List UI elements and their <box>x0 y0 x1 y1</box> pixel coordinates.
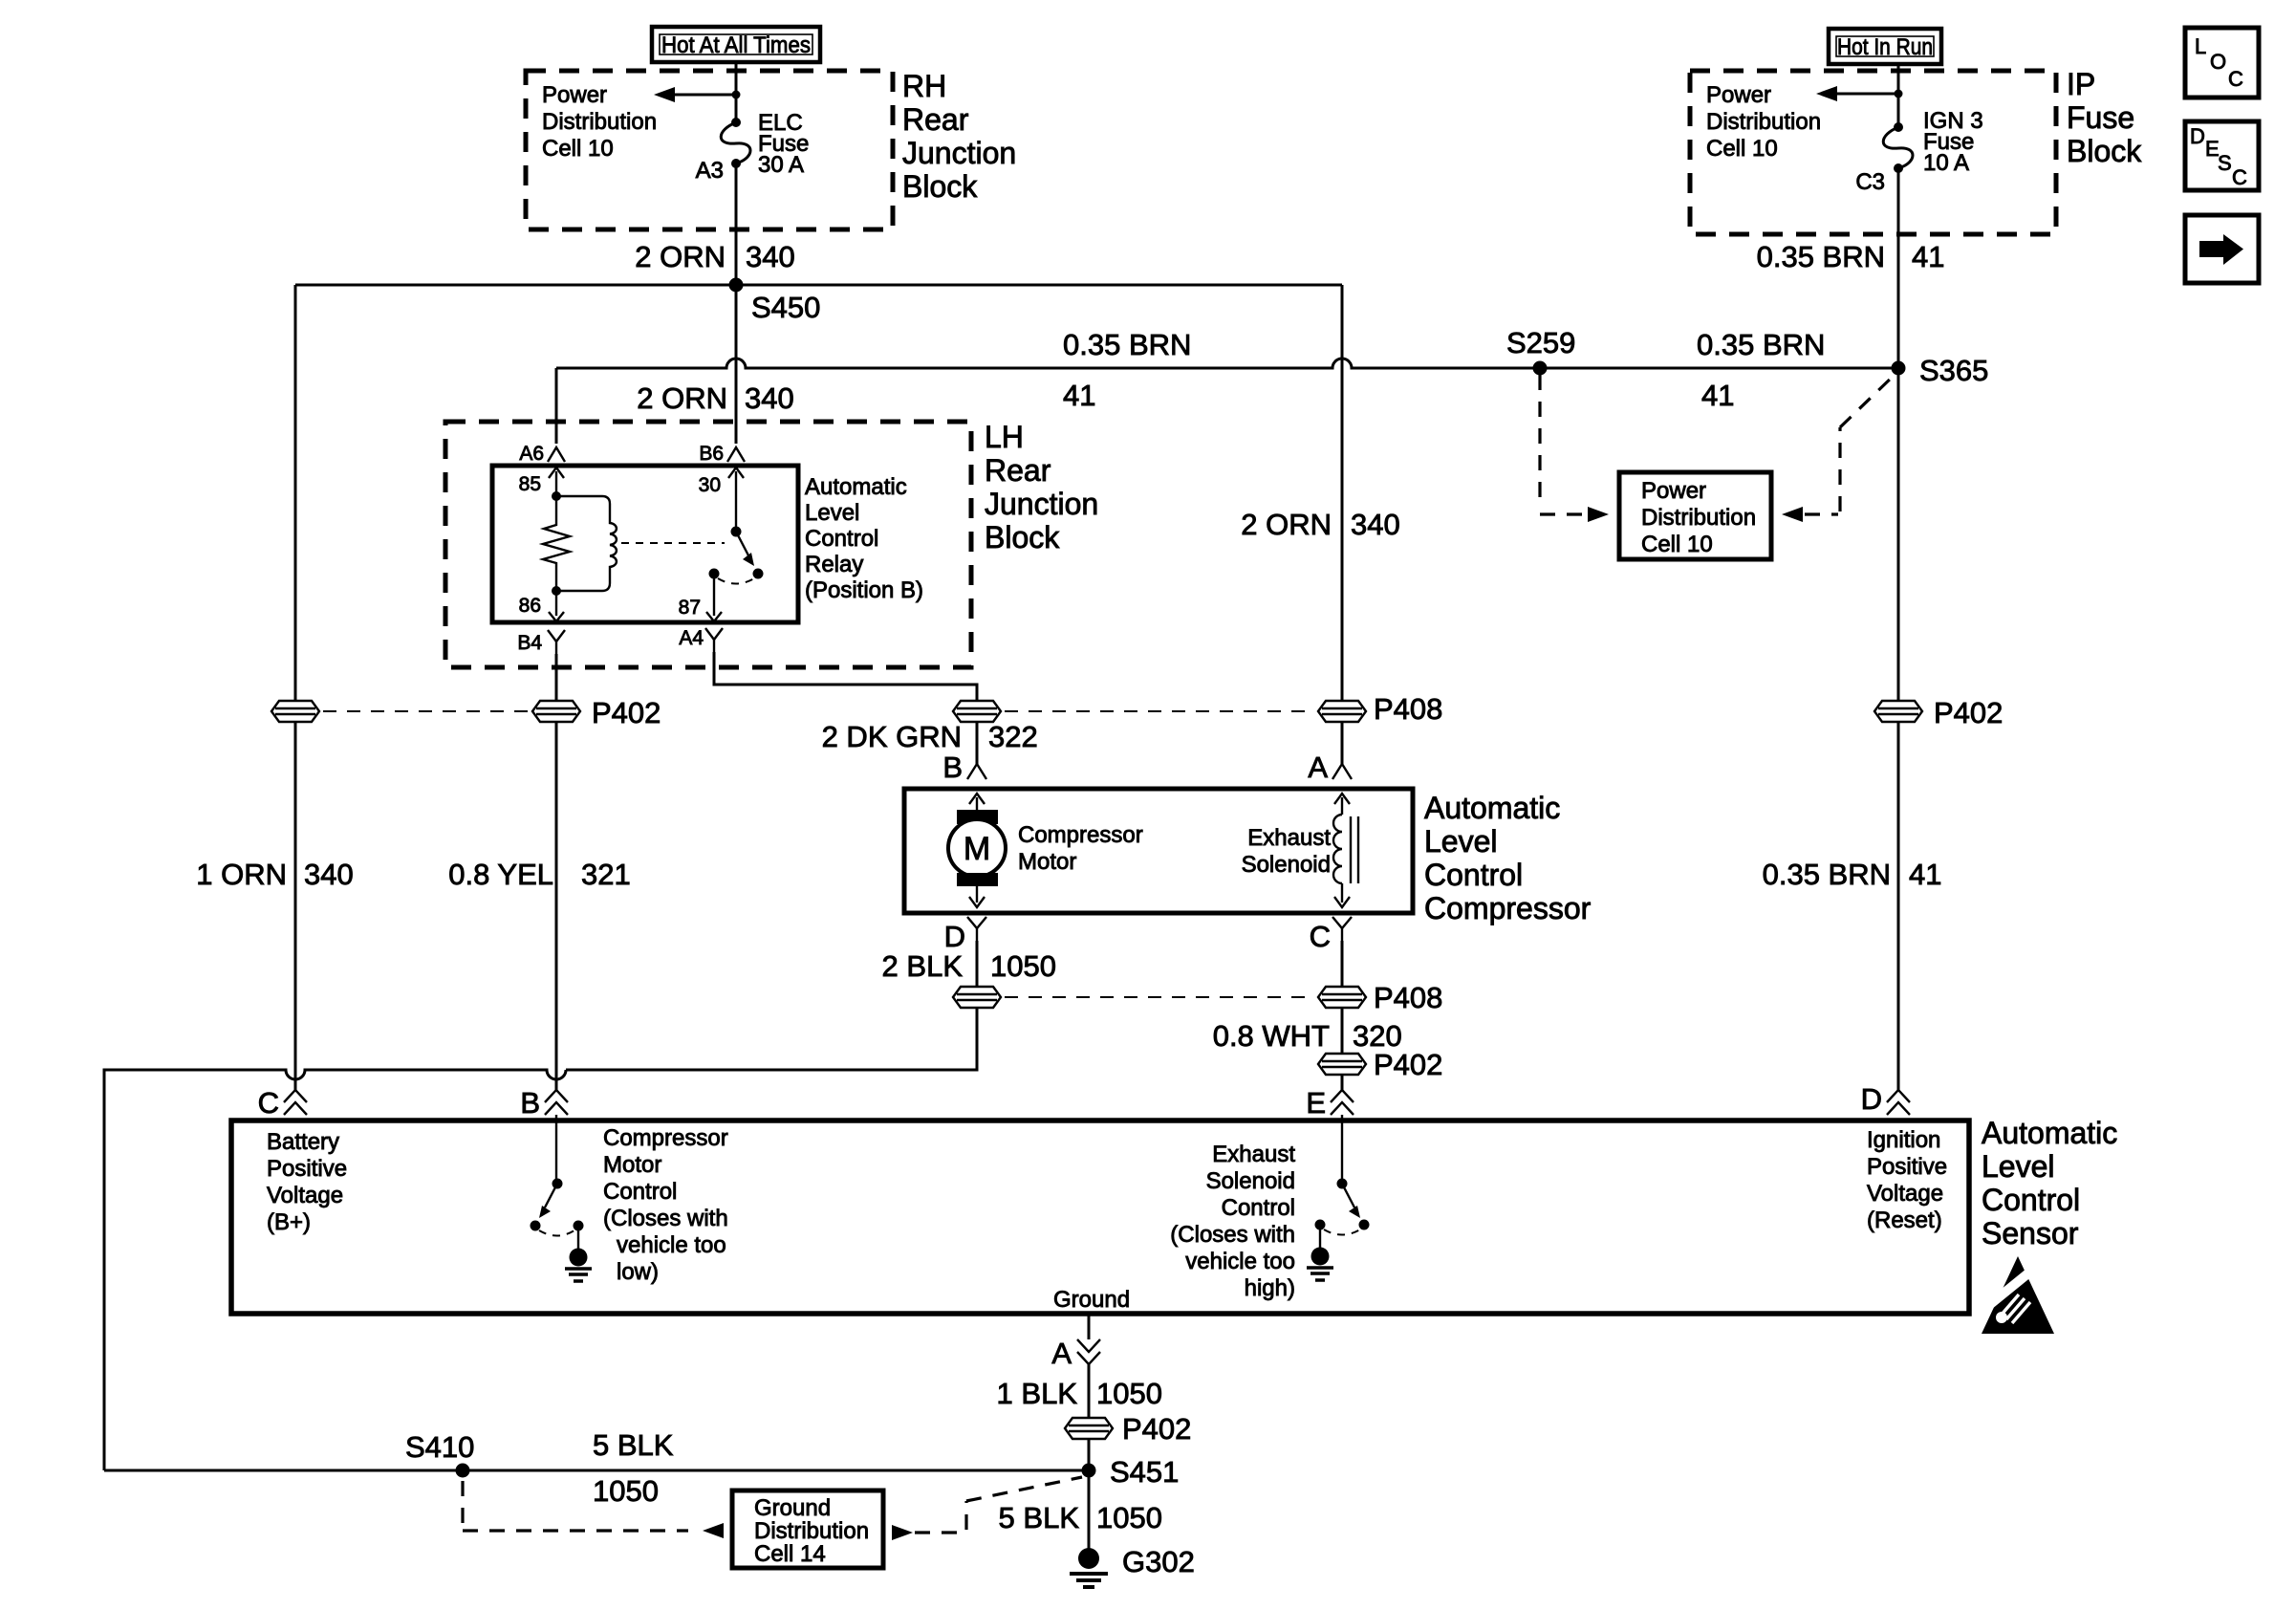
svg-text:Distribution: Distribution <box>754 1518 869 1544</box>
svg-text:41: 41 <box>1912 240 1944 273</box>
svg-text:Motor: Motor <box>603 1152 661 1178</box>
connector P402 cavity (IGN line) <box>1874 368 2003 729</box>
wire to S451 and G302 <box>1088 1439 1091 1549</box>
dashed link P408 lower <box>1005 996 1314 998</box>
ground G302 <box>1070 1545 1195 1587</box>
svg-text:5 BLK: 5 BLK <box>999 1501 1080 1534</box>
connector A (sensor ground) <box>1051 1337 1100 1370</box>
svg-text:vehicle too: vehicle too <box>1185 1249 1295 1274</box>
wire C between connectors <box>1341 1008 1344 1054</box>
wire: hot box down to fuse <box>735 62 738 122</box>
svg-text:Control: Control <box>603 1179 677 1205</box>
svg-text:Power: Power <box>1706 82 1771 108</box>
svg-text:C: C <box>1310 920 1331 953</box>
label Battery Positive Voltage (B+) <box>267 1129 347 1235</box>
svg-text:Ignition: Ignition <box>1867 1127 1940 1153</box>
svg-text:Power: Power <box>1641 478 1706 504</box>
svg-text:vehicle too: vehicle too <box>617 1232 726 1258</box>
svg-text:1 ORN: 1 ORN <box>196 858 287 891</box>
IP fuse block dashed box <box>1690 71 2056 234</box>
ground (motor control contact) <box>565 1226 592 1281</box>
svg-text:1050: 1050 <box>1096 1377 1162 1410</box>
wire: fuse to S450 <box>735 163 738 285</box>
connector P408 cavity (C wire) <box>1318 981 1442 1014</box>
svg-text:0.8 WHT: 0.8 WHT <box>1213 1019 1330 1053</box>
svg-text:5 BLK: 5 BLK <box>593 1428 674 1462</box>
wire S450 down to relay B6 <box>735 285 738 443</box>
node S450 <box>729 278 744 293</box>
label 2 BLK 1050 <box>882 949 1056 983</box>
node S259 <box>1533 361 1548 376</box>
svg-text:340: 340 <box>745 381 794 415</box>
wire D down <box>976 941 979 987</box>
relay switch <box>709 527 764 584</box>
dashed link P402 <box>323 710 529 712</box>
svg-text:Relay: Relay <box>805 552 863 577</box>
wire right drop A line top <box>1341 285 1344 700</box>
svg-text:321: 321 <box>581 858 631 891</box>
svg-text:2 ORN: 2 ORN <box>637 381 727 415</box>
label 2 ORN 340 (to relay) <box>637 381 793 415</box>
svg-text:P402: P402 <box>1934 696 2003 729</box>
dashed link P408 <box>1005 710 1314 712</box>
node pin85 junction <box>552 491 561 501</box>
svg-text:B: B <box>942 751 963 784</box>
connector P402 cavity (C line) <box>271 701 319 722</box>
label Exhaust Solenoid <box>1242 825 1332 878</box>
connector B (compressor) <box>942 751 986 784</box>
wire rail2 corner down to A6 <box>555 368 558 444</box>
svg-text:P402: P402 <box>592 696 661 729</box>
dashed ref from S365 <box>1805 374 1895 514</box>
svg-text:S: S <box>2218 151 2232 175</box>
svg-text:Control: Control <box>1424 858 1523 892</box>
svg-text:0.35 BRN: 0.35 BRN <box>1063 328 1191 361</box>
label Automatic Level Control Compressor <box>1424 791 1592 925</box>
arrow to power distribution (IP) <box>1816 86 1898 101</box>
svg-text:Power: Power <box>542 82 607 108</box>
pin 86 <box>519 591 564 621</box>
node S410 <box>456 1464 470 1478</box>
label Exhaust Solenoid Control (Closes with vehicle too high) <box>1170 1142 1295 1301</box>
DESC box <box>2185 121 2259 190</box>
svg-text:Control: Control <box>1222 1195 1295 1221</box>
wire B4 down <box>555 654 558 700</box>
dashed ref from ground box to S451 <box>915 1477 1082 1533</box>
connector P408 cavity (D wire) <box>953 987 1001 1008</box>
connector D (sensor) <box>1861 1082 1910 1116</box>
node pin86 junction <box>552 586 561 596</box>
wire B line lower <box>555 723 558 1092</box>
svg-text:S259: S259 <box>1506 326 1575 359</box>
svg-text:Motor: Motor <box>1018 849 1076 875</box>
svg-text:low): low) <box>617 1259 659 1285</box>
svg-text:Compressor: Compressor <box>603 1125 728 1151</box>
svg-text:Exhaust: Exhaust <box>1247 825 1331 851</box>
label IP Fuse Block <box>2067 67 2142 168</box>
label Power Distribution Cell 10 (RH) <box>542 82 657 162</box>
svg-text:85: 85 <box>519 473 541 495</box>
svg-text:RH: RH <box>902 69 946 103</box>
svg-text:Block: Block <box>2067 134 2142 168</box>
svg-text:Positive: Positive <box>1867 1154 1947 1180</box>
label 1 ORN 340 <box>196 858 353 891</box>
dashed link coil to switch <box>621 542 725 544</box>
wire IGN line lower <box>1897 723 1900 1092</box>
connector P402 cavity (ground wire) <box>1065 1412 1191 1446</box>
svg-text:P408: P408 <box>1374 692 1442 726</box>
svg-text:Rear: Rear <box>985 453 1051 488</box>
arrowhead out of ground box left <box>703 1523 724 1538</box>
svg-text:Automatic: Automatic <box>1982 1116 2117 1150</box>
wire ground out of sensor <box>1088 1314 1091 1339</box>
connector A6 <box>519 443 565 465</box>
svg-text:Sensor: Sensor <box>1982 1216 2079 1251</box>
ground (exhaust solenoid contact) <box>1307 1225 1333 1280</box>
node S365 <box>1892 361 1906 376</box>
svg-text:(Closes with: (Closes with <box>603 1206 728 1231</box>
compressor motor M <box>948 794 1006 907</box>
svg-text:Block: Block <box>902 169 978 204</box>
svg-text:340: 340 <box>304 858 354 891</box>
wire C line lower <box>294 723 297 1092</box>
svg-text:2 BLK: 2 BLK <box>882 949 964 983</box>
svg-text:1050: 1050 <box>990 949 1056 983</box>
Hot At All Times box <box>652 27 820 62</box>
label IGN 3 Fuse 10 A <box>1923 108 1983 176</box>
LOC box <box>2185 28 2259 98</box>
wire D line down with corner <box>566 1008 977 1070</box>
wire D line hops <box>104 1070 566 1470</box>
svg-text:Level: Level <box>805 500 859 526</box>
svg-text:0.8 YEL: 0.8 YEL <box>448 858 553 891</box>
label Compressor Motor <box>1018 822 1143 875</box>
svg-text:30: 30 <box>699 474 721 496</box>
svg-text:D: D <box>944 920 965 953</box>
connector E (sensor) <box>1306 1086 1354 1120</box>
svg-text:Voltage: Voltage <box>267 1183 343 1208</box>
svg-text:S365: S365 <box>1919 354 1988 387</box>
LH rear junction block dashed box <box>445 422 971 667</box>
label ELC Fuse 30 A <box>758 110 809 178</box>
node: arrow branch dot <box>732 91 741 99</box>
wire C down <box>1341 941 1344 987</box>
svg-text:Cell 10: Cell 10 <box>1641 532 1713 557</box>
RH rear junction block dashed box <box>526 71 893 229</box>
svg-text:Automatic: Automatic <box>1424 791 1560 825</box>
label 0.8 WHT 320 <box>1213 1019 1402 1053</box>
svg-text:Control: Control <box>1982 1183 2080 1217</box>
svg-text:Fuse: Fuse <box>2067 100 2134 135</box>
arrowhead out of ground box right <box>892 1525 913 1540</box>
svg-text:Solenoid: Solenoid <box>1206 1168 1295 1194</box>
Power Distribution Cell 10 box <box>1619 472 1771 559</box>
label 0.35 BRN 41 <box>1757 240 1945 273</box>
wire A4 to compressor B <box>714 652 977 700</box>
wire ground bus left <box>104 1469 1089 1472</box>
wire A down <box>1088 1364 1091 1418</box>
svg-text:2 ORN: 2 ORN <box>635 240 726 273</box>
svg-text:1050: 1050 <box>1096 1501 1162 1534</box>
Ground Distribution Cell 14 box <box>732 1490 883 1568</box>
fuse IGN 3 10A <box>1883 122 1913 173</box>
svg-text:41: 41 <box>1063 379 1095 412</box>
label Automatic Level Control Sensor <box>1982 1116 2117 1251</box>
label Ignition Positive Voltage (Reset) <box>1867 1127 1947 1233</box>
svg-text:Positive: Positive <box>267 1156 347 1182</box>
label LH Rear Junction Block <box>985 420 1098 555</box>
svg-text:Hot At All Times: Hot At All Times <box>661 33 811 58</box>
svg-text:(Reset): (Reset) <box>1867 1207 1942 1233</box>
svg-text:B6: B6 <box>699 443 724 465</box>
wire E to sensor <box>1341 1075 1344 1092</box>
compressor motor control switch <box>531 1115 584 1236</box>
wire: fuse to S365 <box>1897 168 1900 368</box>
dashed ref from S259 <box>1540 375 1586 514</box>
svg-text:D: D <box>2190 124 2205 148</box>
svg-text:S451: S451 <box>1110 1455 1179 1489</box>
connector C (sensor) <box>258 1086 307 1120</box>
svg-text:Voltage: Voltage <box>1867 1181 1943 1207</box>
label Automatic Level Control Relay (Position B) <box>805 474 923 603</box>
wire B down to compressor <box>976 723 979 764</box>
svg-text:S450: S450 <box>751 291 820 324</box>
svg-text:Junction: Junction <box>902 136 1016 170</box>
svg-text:A: A <box>1051 1337 1072 1370</box>
svg-text:86: 86 <box>519 595 541 617</box>
wire rail1 2 ORN 340 <box>295 284 1342 287</box>
svg-text:Ground: Ground <box>1053 1287 1130 1313</box>
svg-text:30 A: 30 A <box>758 152 804 178</box>
svg-text:Compressor: Compressor <box>1424 891 1592 925</box>
pin 30 <box>699 468 744 532</box>
svg-text:2 ORN: 2 ORN <box>1241 508 1332 541</box>
label 2 ORN 340 <box>635 240 794 273</box>
relay coil <box>556 496 617 591</box>
label Power Distribution Cell 10 (IP) <box>1706 82 1821 162</box>
svg-text:L: L <box>2195 34 2206 58</box>
svg-text:E: E <box>1306 1086 1326 1120</box>
svg-text:IP: IP <box>2067 67 2095 101</box>
exhaust solenoid coil <box>1333 794 1358 907</box>
svg-text:Level: Level <box>1424 824 1498 859</box>
wire left drop C line top <box>294 285 297 700</box>
svg-text:C: C <box>2228 67 2243 91</box>
svg-text:D: D <box>1861 1082 1882 1116</box>
ESD symbol <box>1979 1256 2054 1334</box>
svg-text:A: A <box>1308 751 1328 784</box>
svg-text:P402: P402 <box>1122 1412 1191 1446</box>
node S451 <box>1082 1464 1096 1478</box>
exhaust solenoid control switch <box>1315 1115 1370 1235</box>
svg-text:(Closes with: (Closes with <box>1170 1222 1295 1248</box>
label RH Rear Junction Block <box>902 69 1016 204</box>
connector A (compressor) <box>1308 751 1352 784</box>
node: arrow branch dot <box>1895 90 1903 98</box>
wire A down to compressor <box>1341 723 1344 764</box>
svg-text:Cell 14: Cell 14 <box>754 1541 826 1567</box>
svg-text:A6: A6 <box>519 443 544 465</box>
connector P408 cavity (B wire) <box>953 701 1001 722</box>
connector B4 <box>517 630 565 654</box>
svg-text:340: 340 <box>1351 508 1400 541</box>
arrowhead into power box right <box>1782 507 1803 522</box>
svg-text:Block: Block <box>985 520 1060 555</box>
sensor box <box>231 1120 1969 1314</box>
svg-text:A4: A4 <box>679 627 704 649</box>
svg-text:Automatic: Automatic <box>805 474 907 500</box>
label 0.35 BRN 41 (lower) <box>1763 858 1942 891</box>
connector B6 <box>699 368 745 465</box>
arrow to power distribution (RH) <box>654 87 736 102</box>
svg-text:S410: S410 <box>405 1430 474 1464</box>
pin 85 <box>519 468 564 496</box>
svg-text:2 DK GRN: 2 DK GRN <box>822 720 962 753</box>
label 2 DK GRN 322 <box>822 720 1038 753</box>
pin 87 <box>679 574 722 621</box>
label 5 BLK / 1050 (left) <box>593 1428 674 1508</box>
label 0.35 BRN / 41 (right of S259) <box>1697 328 1825 412</box>
compressor box <box>904 789 1413 913</box>
svg-text:0.35 BRN: 0.35 BRN <box>1763 858 1891 891</box>
svg-text:Hot In Run: Hot In Run <box>1837 34 1933 60</box>
svg-text:O: O <box>2210 50 2226 74</box>
svg-text:M: M <box>964 831 990 867</box>
svg-text:Distribution: Distribution <box>1641 505 1756 531</box>
dashed ref from S410 to ground distribution <box>463 1481 688 1531</box>
wire: hot in run down to fuse <box>1897 64 1900 127</box>
svg-text:10 A: 10 A <box>1923 150 1969 176</box>
svg-text:Compressor: Compressor <box>1018 822 1143 848</box>
svg-text:B4: B4 <box>517 632 542 654</box>
svg-text:G302: G302 <box>1122 1545 1195 1578</box>
svg-text:Cell 10: Cell 10 <box>542 136 614 162</box>
svg-text:Solenoid: Solenoid <box>1242 852 1331 878</box>
svg-text:Ground: Ground <box>754 1495 831 1521</box>
label 0.8 YEL 321 <box>448 858 630 891</box>
connector C (compressor) <box>1310 917 1352 953</box>
arrow box <box>2185 215 2259 283</box>
svg-text:322: 322 <box>988 720 1038 753</box>
svg-text:(B+): (B+) <box>267 1209 311 1235</box>
connector D (compressor) <box>944 917 986 953</box>
svg-text:Level: Level <box>1982 1149 2055 1184</box>
arrowhead into power box left <box>1588 507 1609 522</box>
fuse ELC 30A <box>721 118 750 168</box>
svg-text:Cell 10: Cell 10 <box>1706 136 1778 162</box>
resistor (relay coil suppression) <box>543 496 570 591</box>
svg-text:Control: Control <box>805 526 878 552</box>
svg-text:1 BLK: 1 BLK <box>997 1377 1078 1410</box>
connector P408 cavity (A wire) <box>1318 692 1442 726</box>
relay box <box>492 466 798 622</box>
svg-text:1050: 1050 <box>593 1474 659 1508</box>
svg-text:P402: P402 <box>1374 1048 1442 1081</box>
label 1 BLK 1050 <box>997 1377 1162 1410</box>
svg-text:Junction: Junction <box>985 487 1098 521</box>
connector P402 cavity (B line) <box>532 696 661 729</box>
svg-text:Distribution: Distribution <box>1706 109 1821 135</box>
label Compressor Motor Control (Closes with vehicle too low) <box>603 1125 728 1285</box>
svg-text:41: 41 <box>1909 858 1941 891</box>
wire rail2 0.35 BRN 41 with hops <box>556 359 1898 368</box>
svg-text:0.35 BRN: 0.35 BRN <box>1697 328 1825 361</box>
svg-text:(Position B): (Position B) <box>805 577 923 603</box>
svg-text:high): high) <box>1245 1275 1295 1301</box>
connector P402 cavity (E wire) <box>1318 1048 1442 1081</box>
svg-text:Distribution: Distribution <box>542 109 657 135</box>
svg-text:Battery: Battery <box>267 1129 339 1155</box>
svg-text:C3: C3 <box>1855 169 1885 195</box>
svg-text:Rear: Rear <box>902 102 969 137</box>
svg-text:41: 41 <box>1701 379 1734 412</box>
svg-text:87: 87 <box>679 597 701 619</box>
label 5 BLK 1050 (right) <box>999 1501 1162 1534</box>
connector B (sensor) <box>520 1086 568 1120</box>
svg-text:LH: LH <box>985 420 1024 454</box>
connector A4 <box>679 627 723 652</box>
svg-text:B: B <box>520 1086 540 1120</box>
Hot In Run box <box>1829 29 1941 64</box>
svg-text:340: 340 <box>746 240 795 273</box>
label 0.35 BRN / 41 (left of center) <box>1063 328 1191 412</box>
svg-text:A3: A3 <box>696 158 724 184</box>
svg-text:C: C <box>258 1086 279 1120</box>
svg-text:P408: P408 <box>1374 981 1442 1014</box>
svg-text:Exhaust: Exhaust <box>1212 1142 1295 1167</box>
svg-text:C: C <box>2232 165 2247 189</box>
label 2 ORN 340 (A line) <box>1241 508 1399 541</box>
svg-text:0.35 BRN: 0.35 BRN <box>1757 240 1885 273</box>
